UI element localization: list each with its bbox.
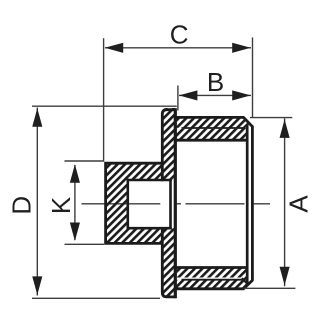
- dimension C line: [105, 47, 251, 49]
- web right edge / bore end face: [174, 108, 177, 298]
- dimension A line: [284, 118, 286, 286]
- svg-text:C: C: [170, 19, 189, 49]
- small bore end face: [169, 179, 172, 230]
- hatch fill cylinder bottom wall: [175, 267, 249, 290]
- dimension A extension top: [250, 117, 292, 119]
- dimension A arrow bottom: [280, 267, 290, 286]
- large bore bottom line: [174, 266, 246, 269]
- cylinder bottom chamfer + outer bottom: [175, 280, 252, 289]
- web outline upper-left: [162, 110, 175, 182]
- socket outline: [106, 163, 163, 243]
- hatch fill cylinder top wall: [175, 116, 249, 140]
- svg-text:A: A: [283, 195, 313, 213]
- hatch fill left body (socket + web) with small bore cutout: [105, 108, 175, 297]
- dimension D extension top: [32, 105, 177, 107]
- large bore top line: [174, 139, 246, 142]
- thread inner chamfer top: [242, 124, 248, 130]
- thread root bottom line: [182, 279, 244, 281]
- thread inner chamfer bottom: [242, 278, 248, 284]
- small bore bottom line: [127, 227, 172, 230]
- web outline lower-left: [162, 227, 175, 297]
- dimension K extension bottom: [65, 243, 105, 245]
- dimension D arrow bottom: [32, 276, 42, 295]
- svg-text:D: D: [6, 196, 36, 215]
- dimension B extension left: [177, 86, 179, 111]
- dimension C/B extension right: [252, 38, 254, 118]
- small bore top line: [127, 179, 172, 182]
- centerline: [82, 203, 271, 205]
- svg-text:K: K: [46, 196, 76, 214]
- svg-text:B: B: [207, 67, 224, 97]
- cylinder outer top + chamfer: [175, 117, 252, 126]
- thread root top line: [182, 127, 244, 129]
- dimension K arrow bottom: [70, 223, 80, 242]
- dimension B arrow right: [232, 90, 251, 100]
- dimension K line: [74, 165, 76, 240]
- dimension B line: [179, 94, 251, 96]
- dimension D arrow top: [32, 108, 42, 127]
- dimension A arrow top: [280, 119, 290, 137]
- dimension C arrow left: [105, 43, 124, 53]
- cylinder right face: [251, 126, 254, 281]
- dimension C arrow right: [232, 43, 251, 53]
- dimension B arrow left: [179, 90, 198, 100]
- dimension C extension left: [103, 38, 105, 161]
- thread end line: [246, 124, 249, 283]
- dimension K extension top: [65, 160, 105, 162]
- dimension K arrow top: [70, 164, 80, 183]
- dimension A extension bottom: [244, 287, 295, 289]
- small bore left face: [127, 179, 130, 230]
- dimension D extension bottom: [32, 297, 160, 299]
- dimension D line: [36, 108, 38, 296]
